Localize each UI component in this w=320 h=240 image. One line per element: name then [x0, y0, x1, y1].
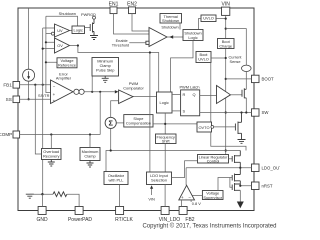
node: supply run junctions: [110, 149, 112, 151]
svg-text:Reference: Reference: [58, 63, 76, 68]
svg-text:Logic: Logic: [188, 35, 197, 40]
svg-text:LDO_OUT: LDO_OUT: [262, 166, 281, 171]
node: OV output junction: [77, 44, 79, 46]
box Logic (UV/OV): [72, 26, 85, 34]
transistor nRST lower FET: [232, 181, 240, 191]
ground (minimum clamp): [102, 76, 109, 82]
comparator UV: [55, 24, 70, 37]
svg-text:Pulse Skip: Pulse Skip: [96, 68, 114, 73]
wire: EN1 to enable comparator: [114, 14, 150, 34]
pin VIN: [222, 1, 231, 15]
box Frequency Shift: [156, 134, 177, 144]
outer device border: [18, 8, 254, 211]
current sensor ellipse: [242, 65, 252, 71]
transistor nRST upper FET: [232, 168, 240, 182]
svg-text:OVTO: OVTO: [199, 125, 210, 130]
pin PowerPAD: [68, 207, 92, 223]
svg-text:PWM Latch: PWM Latch: [179, 85, 199, 90]
ground (low-side FET): [238, 140, 246, 144]
svg-text:Charge: Charge: [219, 43, 232, 48]
svg-text:Q: Q: [192, 92, 195, 97]
wire: ground net run: [30, 193, 53, 195]
pin FB1: [3, 82, 19, 89]
svg-text:Σ: Σ: [108, 119, 113, 128]
pin COMP: [0, 131, 20, 138]
svg-text:Shutdown: Shutdown: [162, 18, 179, 23]
wire: COMP to overload recovery: [50, 135, 52, 149]
svg-text:FB2: FB2: [185, 217, 194, 223]
svg-text:−: −: [53, 84, 56, 89]
wire: FB1 net: [20, 84, 51, 86]
node: slope node junction: [164, 123, 166, 125]
svg-text:Threshold: Threshold: [112, 43, 129, 48]
wire: internal supply run: [106, 151, 240, 172]
svg-text:UVLO: UVLO: [198, 57, 209, 62]
wire: LDO input selection to linear regulator: [172, 161, 198, 178]
svg-text:Recovery: Recovery: [43, 154, 59, 159]
node: FB1 junction dots: [34, 84, 36, 86]
wire: minimum clamp to COMP node: [91, 76, 93, 92]
svg-text:GND: GND: [37, 217, 49, 223]
box Boot Charge: [218, 39, 235, 49]
svg-text:UVLO: UVLO: [203, 16, 214, 21]
wire: lower FET source to pad: [239, 190, 241, 201]
node: SW rail junctions: [240, 111, 242, 113]
svg-text:FB1: FB1: [3, 82, 12, 87]
pin EN2: [127, 1, 137, 13]
wire: boot UVLO to OVTO column: [210, 63, 212, 123]
box Shutdown Logic: [183, 30, 203, 41]
wire: GND pin riser: [41, 194, 43, 206]
wire: shutdown net from UV/OV logic: [46, 16, 78, 26]
wire: LDO output to pin: [186, 168, 251, 186]
pin RT/CLK: [115, 207, 133, 223]
box Minimum Clamp Pulse Skip: [92, 58, 119, 77]
ground (overload recovery): [48, 160, 55, 167]
box Overload Recovery: [42, 149, 62, 160]
box PWM Latch: [179, 85, 199, 116]
label Shutdown with arrow: [161, 25, 178, 39]
resistor (GND to PowerPAD): [53, 192, 67, 197]
node: COMP node junctions: [91, 91, 93, 93]
transistor low-side FET: [235, 113, 241, 140]
wire: comparator to supervisor: [193, 194, 203, 196]
wire: current source to SS net: [28, 81, 30, 99]
svg-text:Shutdown: Shutdown: [59, 11, 76, 16]
wire: OVTO to low-side gate: [211, 126, 214, 129]
label VIN with arrow into selector: [148, 185, 155, 201]
box Maximum Clamp: [80, 148, 100, 161]
wire: logic to slope comp node and OVTO: [153, 113, 197, 134]
svg-text:Clamp: Clamp: [84, 154, 95, 159]
wire: COMP pin riser: [20, 92, 101, 135]
wire: SW rail: [200, 112, 252, 114]
box Voltage Supervisor: [202, 191, 223, 200]
wire: supervisor to reset gates: [218, 178, 232, 191]
node: enable run junction: [149, 51, 151, 53]
wire: logic to latch S: [172, 110, 181, 112]
amplifier gate driver: [217, 86, 231, 104]
transistor high-side FET: [242, 88, 246, 98]
comparator PWM: [119, 81, 145, 103]
svg-text:Supervisor: Supervisor: [203, 195, 222, 200]
node: VIN column junctions: [225, 18, 227, 20]
svg-text:Selection: Selection: [151, 178, 167, 183]
wire: VIN column: [225, 15, 227, 154]
wire: SS/TR net: [20, 98, 51, 100]
ground (maximum clamp): [87, 161, 94, 168]
svg-text:+: +: [181, 195, 184, 200]
wire: sigma to PWM comparator: [111, 101, 119, 118]
comparator OV: [55, 38, 70, 53]
svg-text:R: R: [183, 92, 186, 97]
wire: COMP to maximum clamp: [89, 135, 91, 148]
wire: logic to PWRGD gate: [85, 27, 91, 29]
pin SS: [6, 96, 20, 103]
ground (PWRGD source): [90, 36, 98, 40]
box Linear Regulator Control: [198, 154, 229, 163]
svg-text:Control: Control: [207, 158, 220, 163]
wire: UVLO to shutdown logic: [198, 19, 201, 30]
node: LDO output junction: [239, 167, 241, 169]
wire: OVTO lower run: [211, 132, 246, 151]
wire: UV output to logic: [70, 30, 73, 32]
box LDO Input Selection: [147, 172, 172, 185]
pin nRST: [252, 182, 273, 190]
pin EN1: [109, 1, 119, 13]
box UVLO: [201, 15, 216, 22]
node: reference column junctions: [45, 41, 47, 43]
svg-text:Compensation: Compensation: [126, 120, 151, 125]
svg-text:RT/CLK: RT/CLK: [115, 217, 133, 223]
wire: nRST to pin: [240, 185, 251, 187]
box OVTO: [197, 122, 212, 132]
wire: VIN to UVLO: [216, 18, 226, 20]
svg-text:OV: OV: [57, 43, 63, 48]
box Boot UVLO: [196, 52, 211, 63]
node: error amp output double circle: [74, 89, 79, 94]
comparator enable: [146, 28, 167, 47]
wire: FB1 drop to overload recovery: [35, 85, 41, 154]
wire: VIN to power rail: [226, 29, 247, 65]
op-amp error amplifier: [51, 71, 74, 103]
svg-text:PowerPAD: PowerPAD: [68, 217, 92, 223]
svg-text:UV: UV: [57, 28, 63, 33]
svg-text:Logic: Logic: [160, 100, 169, 105]
wire: thermal shutdown to shutdown logic: [179, 23, 181, 30]
wire: rail ellipse to high-side FET: [245, 71, 247, 112]
wire: latch Q to gate driver: [200, 95, 217, 97]
svg-text:VIN: VIN: [148, 196, 155, 201]
box Voltage Reference: [57, 58, 77, 68]
wire: enable threshold input: [129, 42, 146, 44]
wire: reference column to comparators and error amp: [46, 16, 57, 92]
svg-text:0.8 V: 0.8 V: [192, 201, 201, 206]
wire: internal VIN rail to soft-start current source: [28, 8, 30, 69]
wire: RT/CLK to oscillator: [119, 185, 121, 207]
svg-text:+: +: [53, 92, 56, 97]
box Logic (main): [157, 92, 173, 113]
svg-text:S: S: [183, 109, 186, 114]
transistor PWRGD FET: [81, 12, 96, 35]
svg-text:SW: SW: [262, 110, 270, 115]
wire: enable comparator output: [167, 36, 183, 38]
svg-text:COMP: COMP: [0, 132, 12, 137]
wire: FB/ground column: [43, 28, 55, 194]
transistor LDO pass FET: [232, 151, 240, 168]
node: junction on SS wire: [28, 98, 30, 100]
wire: FB2 riser: [181, 200, 183, 207]
pin BOOT: [252, 75, 275, 82]
wire: EN2 to enable comparator: [132, 14, 149, 31]
svg-text:Amplifier: Amplifier: [56, 76, 72, 81]
wire: sigma to current sense run: [110, 129, 112, 151]
node: nRST junction: [239, 185, 241, 187]
svg-text:Comparator: Comparator: [123, 85, 144, 90]
pin LDO_OUT: [252, 164, 283, 172]
comparator 0.8V supervisor: [179, 185, 201, 206]
svg-text:−: −: [188, 195, 191, 200]
ground arrow (power pad): [237, 202, 244, 209]
wire: logic to latch R: [172, 93, 181, 95]
pin VIN_LDO: [159, 207, 181, 223]
wire: PWM comparator output to logic: [133, 95, 157, 97]
svg-text:Shift: Shift: [162, 139, 171, 144]
summing node sigma: [105, 117, 116, 128]
node: arrowhead into PWM comparator: [115, 90, 119, 93]
node: COMP net junctions: [50, 133, 52, 135]
box Oscillator with PLL: [104, 172, 128, 185]
svg-text:SS/TR: SS/TR: [38, 93, 50, 98]
svg-text:Sense: Sense: [229, 59, 240, 64]
node: column junctions: [42, 48, 44, 50]
pin FB2: [179, 207, 195, 223]
wire: OV output and fault run to main logic: [70, 46, 159, 93]
svg-text:Copyright © 2017, Texas Instru: Copyright © 2017, Texas Instruments Inco…: [142, 223, 276, 230]
wire: shutdown logic to main logic: [171, 41, 193, 93]
wire: enable run to LDO input selection: [149, 53, 151, 173]
ground (left GND net): [26, 194, 34, 198]
wire: error amp output / COMP node: [73, 91, 115, 93]
svg-text:Shutdown: Shutdown: [161, 25, 178, 30]
pin GND: [37, 207, 49, 223]
svg-text:BOOT: BOOT: [262, 77, 275, 82]
node: UV inverting input bubble: [51, 32, 54, 35]
svg-text:with PLL: with PLL: [109, 177, 125, 182]
wire: control to LDO pass gate: [229, 158, 233, 160]
box Thermal Shutdown: [160, 14, 182, 24]
current source I_SS: [23, 69, 35, 81]
svg-text:VIN_LDO: VIN_LDO: [159, 217, 181, 223]
wire: resistor to PowerPAD: [67, 194, 79, 206]
node: GND junction: [41, 193, 43, 195]
pin SW: [252, 109, 270, 116]
svg-text:nRST: nRST: [262, 184, 273, 189]
box Slope Compensation: [124, 115, 153, 127]
wire: VIN_LDO to LDO input selection: [164, 185, 166, 207]
wire: driver to high-side gate: [231, 94, 243, 96]
wire: frequency shift to LDO input selection: [164, 144, 166, 173]
wire: boot charge to BOOT pin: [226, 78, 252, 80]
svg-text:VIN: VIN: [222, 1, 231, 7]
svg-text:SS: SS: [6, 97, 12, 102]
svg-text:+: +: [53, 98, 56, 103]
wire: slope comp to sigma: [116, 122, 124, 124]
svg-text:Logic: Logic: [74, 27, 83, 32]
wire: boot UVLO output to VIN column: [211, 57, 226, 59]
